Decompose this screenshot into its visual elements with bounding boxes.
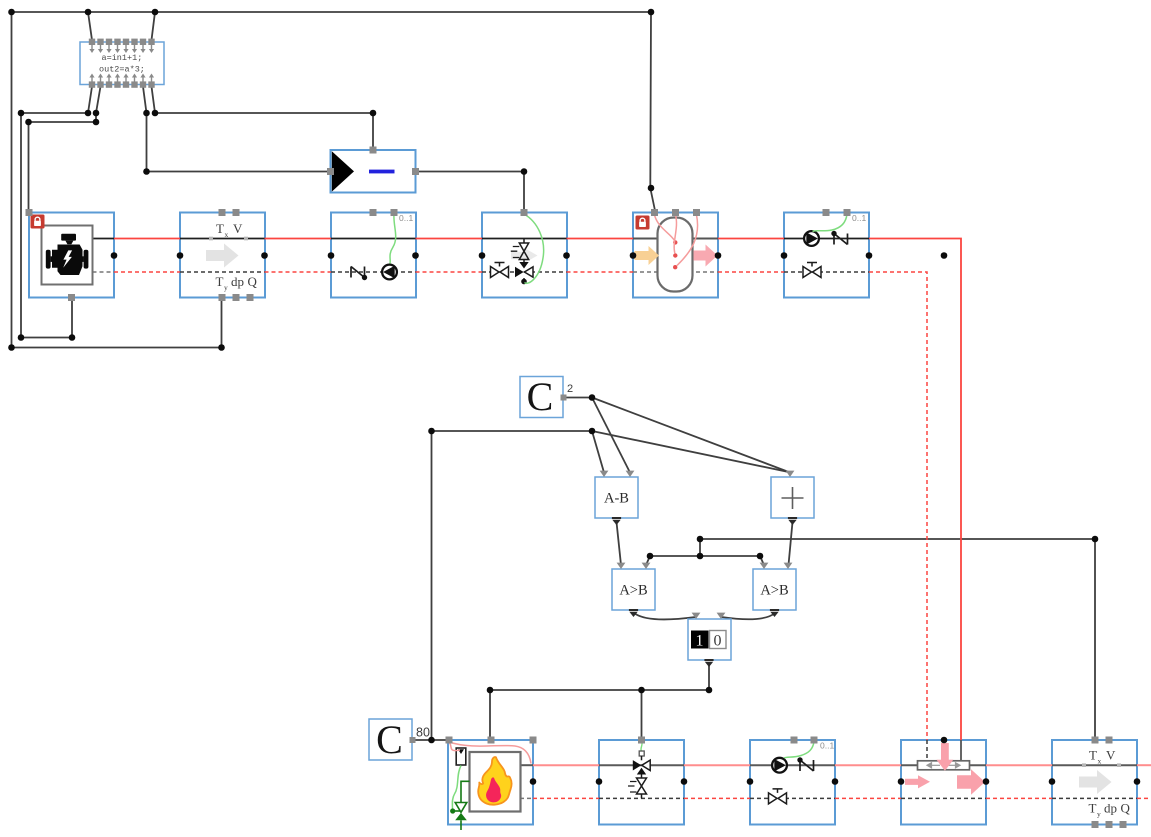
tank top ports <box>651 209 658 216</box>
pipe dashed engine stub <box>93 271 115 273</box>
subtract A-B input arrows <box>600 471 609 477</box>
sensor S1 bottom ports <box>219 294 226 301</box>
gain block triangle <box>332 151 354 191</box>
valve V1 top port <box>521 209 528 216</box>
pipe supply inside mixer <box>960 740 962 761</box>
wire calc bottom pin7 to gain input <box>143 87 330 172</box>
svg-text:V: V <box>233 221 243 236</box>
wire calc bottom pin1 to engine bottom <box>21 87 92 338</box>
constant C2 output port <box>561 395 567 401</box>
pump P2 green control curve <box>813 214 848 232</box>
pipe dashed inside pump P2 <box>784 271 869 273</box>
pipe dashed red sensor S1 to pump P1 <box>265 271 332 273</box>
comparator A>B left input arrows <box>617 563 626 569</box>
sensor S1 gray flow arrow <box>206 244 239 268</box>
valve V1 solenoid triangle <box>519 262 528 269</box>
wire A-B output to comparator A>B left <box>617 522 622 565</box>
constant C80 output port <box>410 737 416 743</box>
pump P1 check valve symbol <box>351 267 367 281</box>
engine icon <box>46 234 89 275</box>
svg-text:0..1: 0..1 <box>852 213 866 223</box>
wire adder output to comparator A>B right <box>789 522 793 565</box>
junction dots top row pipe nodes <box>111 252 948 259</box>
svg-text:dp: dp <box>231 274 244 289</box>
wire top bus horizontal <box>12 11 652 13</box>
wire A>B right output to switch <box>722 613 776 619</box>
wire calc bottom pin2 to engine top-left <box>29 87 101 210</box>
wire bus to A>B right input A <box>760 556 764 565</box>
switch input arrows <box>692 613 701 619</box>
boiler flame icon <box>478 757 511 805</box>
tank outlet arrow pink <box>694 245 718 267</box>
wire C2 to adder + input <box>592 398 790 473</box>
gain block ports <box>370 147 377 154</box>
pipe dashed red pump P1 to valve V1 <box>416 271 483 273</box>
valve V1 gray arrow backdrop <box>511 248 538 263</box>
comparator A>B left output port <box>629 610 638 617</box>
pipe dashed inside tank right <box>689 271 718 273</box>
tank vessel capsule <box>658 218 693 292</box>
pipe dashed return inside mixer <box>926 740 928 762</box>
boiler red sensor curve short <box>449 742 460 751</box>
pipe red pump P3 to mixer <box>835 764 901 766</box>
svg-text:T: T <box>216 221 224 236</box>
wire top bus to tank port <box>650 12 655 211</box>
pipe dashed inside pump P1 <box>331 271 416 273</box>
comparator A>B right output port <box>770 610 779 617</box>
pipe dashed red sensor S2 to edge <box>1137 797 1151 799</box>
pump P3 bowtie valve <box>769 789 787 804</box>
wire constant C2 output stub <box>564 397 593 399</box>
pipe dashed red boiler to valve V2 <box>533 797 599 799</box>
wire A>B left output to switch <box>634 613 696 619</box>
valve V2 green stub <box>641 742 642 752</box>
gain block blue dash <box>369 170 395 174</box>
mixer manifold bar <box>918 761 970 770</box>
block valve V2 frame <box>599 740 684 825</box>
comparator A>B right frame <box>753 569 796 610</box>
sensor S2 tick marks <box>1082 763 1086 767</box>
svg-text:A-B: A-B <box>604 491 629 507</box>
junction dots calc fanout <box>18 110 528 341</box>
valve V2 actuator square <box>639 751 644 756</box>
svg-text:y: y <box>224 283 228 292</box>
svg-text:1: 1 <box>696 633 704 650</box>
valve V1 left bowtie valve <box>491 263 509 278</box>
svg-text:0: 0 <box>714 633 722 650</box>
constant C2 frame <box>520 377 563 418</box>
pipe inside pump P3 <box>750 764 835 766</box>
valve V2 three-way valve <box>633 760 642 770</box>
pipe inside sensor S2 <box>1052 764 1137 766</box>
valve V2 stem <box>641 756 643 760</box>
block temperature-flow sensor S2 frame <box>1052 740 1137 825</box>
sensor S1 label T x V <box>216 221 243 239</box>
wire riser to adder + input 2 <box>592 431 789 472</box>
pipe dashed red mixer to sensor S2 <box>986 797 1052 799</box>
wire riser to subtract A-B input A <box>592 431 604 473</box>
valve V1 green control curve <box>524 214 544 283</box>
tank lock badge <box>636 216 650 230</box>
svg-text:T: T <box>216 274 224 289</box>
block engine/CHP unit frame <box>29 213 114 298</box>
pipe dashed red valve V2 to pump P3 <box>684 797 750 799</box>
pipe dashed inside sensor S1 <box>180 271 265 273</box>
adder plus sign <box>782 487 804 509</box>
pipe red valve V1 to tank <box>567 238 634 240</box>
svg-text:C: C <box>527 374 554 419</box>
wire calc top pin1 link <box>88 12 92 40</box>
boiler flame box <box>470 752 521 812</box>
pipe red sensor S1 to pump P1 <box>265 238 332 240</box>
junction dots bottom row pipe nodes <box>530 778 1141 785</box>
boiler green junction dot <box>450 808 455 813</box>
pump P2 check valve symbol <box>831 231 847 245</box>
pump P1 pump circle <box>382 265 397 280</box>
pipe red supply down to mixer <box>869 239 961 741</box>
svg-text:A>B: A>B <box>760 583 788 599</box>
mixer pink small right arrow <box>905 775 930 788</box>
wire top bus left vertical <box>11 12 13 348</box>
pipe engine outlet stub <box>93 238 115 240</box>
boiler top ports <box>446 737 453 744</box>
engine top-left port <box>26 209 33 216</box>
pipe boiler outlet stub <box>520 764 533 766</box>
constant C80 frame <box>369 719 412 760</box>
tank sensor curve 1 <box>655 215 675 241</box>
svg-text:80: 80 <box>416 726 430 740</box>
pipe dashed red pump P3 to mixer <box>835 797 901 799</box>
pipe dashed red engine to sensor S1 <box>114 271 180 273</box>
wire calc bottom pin8 to gain top <box>152 87 374 150</box>
pipe red boiler to valve V2 <box>533 764 599 766</box>
pipe dashed inside valve V2 <box>599 797 684 799</box>
svg-text:y: y <box>1097 810 1101 819</box>
mixer pink down arrow <box>936 743 953 771</box>
wire bottom-left horizontal to sensor S1 <box>12 347 222 349</box>
tank inlet arrow tan <box>635 246 660 265</box>
pipe red mixer to sensor S2 <box>986 764 1052 766</box>
wire branch down to valve V2 top <box>641 690 643 739</box>
sensor S2 top ports <box>1092 737 1099 744</box>
sensor S1 tick marks <box>209 237 213 241</box>
svg-text:dp: dp <box>1104 801 1117 816</box>
svg-text:A>B: A>B <box>619 583 647 599</box>
boiler red sensor curve long <box>449 742 531 764</box>
block storage tank frame <box>633 213 718 298</box>
pipe inside valve V1 <box>482 238 567 240</box>
valve V1 three-way valve <box>515 267 524 277</box>
sensor S2 label T x V <box>1089 748 1116 766</box>
sensor S2 bottom ports <box>1092 821 1099 828</box>
pipe red tank to pump P2 <box>718 238 784 240</box>
pipe inside tank left <box>633 238 662 240</box>
pipe dashed red tank to pump P2 <box>718 271 784 273</box>
pump P2 pump circle <box>804 231 819 246</box>
svg-text:2: 2 <box>567 383 573 395</box>
valve V1 hourglass valve <box>523 239 525 244</box>
gain block frame <box>331 150 416 193</box>
block mixer/diverter frame <box>901 740 986 825</box>
pipe red valve V2 to pump P3 <box>684 764 750 766</box>
pump P3 check valve symbol <box>797 757 813 771</box>
pipe inside mixer left <box>901 764 918 766</box>
wire bus to A>B left input B <box>646 556 650 565</box>
valve V2 top port <box>638 737 645 744</box>
svg-text:a=in1+1;: a=in1+1; <box>102 53 143 63</box>
subtract A-B output port <box>612 518 621 525</box>
svg-text:out2=a*3;: out2=a*3; <box>99 65 145 75</box>
sensor S2 label T y dp Q <box>1089 801 1131 819</box>
block pump P1 frame <box>331 213 416 298</box>
svg-text:0..1: 0..1 <box>820 741 834 751</box>
pipe inside mixer right <box>970 764 987 766</box>
adder output port <box>788 518 797 525</box>
svg-text:Q: Q <box>1121 801 1131 816</box>
pump P2 bowtie valve <box>803 263 821 278</box>
wire comparator shared input bus <box>650 555 760 557</box>
svg-text:x: x <box>1098 757 1102 766</box>
wire sensor S2 feedback line <box>700 539 1095 739</box>
wire constant C80 output to boiler <box>413 739 449 741</box>
sensor S2 gray flow arrow <box>1079 770 1112 794</box>
sensor S1 label T y dp Q <box>216 274 258 292</box>
svg-text:T: T <box>1089 748 1097 763</box>
adder block frame <box>771 477 814 518</box>
block boiler frame <box>448 740 533 825</box>
mixer top junction dot <box>941 737 948 744</box>
valve V2 lower hourglass valve <box>641 775 643 779</box>
wire sensor S1 bottom port drop <box>221 300 223 348</box>
switch block frame <box>688 619 731 660</box>
svg-text:Q: Q <box>248 274 258 289</box>
pump P3 top ports <box>791 737 798 744</box>
boiler green curve from thermostat <box>452 766 461 810</box>
pipe dashed inside mixer <box>901 797 986 799</box>
pipe dashed red return down to mixer <box>869 272 927 740</box>
adder input arrow <box>786 471 795 477</box>
switch value 1 cell <box>691 631 709 649</box>
calc top pins <box>89 39 155 53</box>
pump P1 green control curve <box>390 214 396 264</box>
tank sensor curve 3 <box>677 215 698 266</box>
pump P3 green control curve <box>784 742 814 759</box>
svg-text:0..1: 0..1 <box>399 213 413 223</box>
svg-text:C: C <box>376 717 403 762</box>
svg-text:x: x <box>225 230 229 239</box>
boiler dark green elbow <box>461 781 470 802</box>
calc equation block frame <box>80 42 164 85</box>
junction dots logic section <box>428 394 1098 743</box>
block temperature-flow sensor S1 frame <box>180 213 265 298</box>
pump P1 top ports <box>370 209 377 216</box>
block 3-way valve V1 frame <box>482 213 567 298</box>
pipe dashed inside tank left <box>633 271 661 273</box>
block pump P2 frame <box>784 213 869 298</box>
pipe dashed inside valve V1 <box>482 271 567 273</box>
svg-text:T: T <box>1089 801 1097 816</box>
pipe inside tank right <box>688 238 718 240</box>
boiler green link to valve <box>453 810 461 812</box>
pipe red engine to sensor S1 <box>114 238 180 240</box>
sensor S1 top ports <box>219 209 226 216</box>
svg-text:V: V <box>1106 748 1116 763</box>
wire switch output to boiler and valve V2 <box>490 664 709 739</box>
engine lock badge <box>31 215 45 229</box>
subtract A-B frame <box>595 477 638 518</box>
engine inner icon box <box>42 226 93 285</box>
pipe dashed red valve V1 to tank <box>567 271 634 273</box>
mixer pink large right arrow <box>957 769 985 795</box>
comparator A>B left frame <box>612 569 655 610</box>
wire calc top pin8 link <box>152 12 156 40</box>
pipe dashed inside sensor S2 <box>1052 797 1137 799</box>
wire gain output to valve V1 top <box>416 172 524 212</box>
valve V1 drain dot <box>521 279 527 285</box>
calc equation text <box>99 53 145 75</box>
wire C2 to subtract A-B input B <box>592 398 630 473</box>
switch output port <box>704 660 713 667</box>
boiler green safety valve <box>455 803 467 813</box>
pipe inside sensor S1 <box>180 238 265 240</box>
junction dots top bus <box>8 9 654 351</box>
pipe inside pump P1 <box>331 238 416 240</box>
tank sensor curve 2 <box>674 215 676 253</box>
boiler thermostat icon <box>456 748 466 765</box>
pipe red pump P1 to valve V1 <box>416 238 483 240</box>
block pump P3 frame <box>750 740 835 825</box>
switch value 0 cell <box>710 631 727 649</box>
calc bottom pins <box>89 74 155 88</box>
engine bottom port <box>68 294 75 301</box>
pump P3 pump circle <box>772 758 787 773</box>
wire C80 riser to logic row <box>432 431 593 740</box>
pipe inside valve V2 <box>599 764 684 766</box>
pipe dashed boiler stub <box>520 797 533 799</box>
comparator A>B right input arrows <box>760 563 769 569</box>
pipe dashed inside pump P3 <box>750 797 835 799</box>
mixer manifold mini arrows <box>927 763 960 768</box>
pump P2 top ports <box>823 209 830 216</box>
pipe red sensor S2 to edge <box>1137 764 1151 766</box>
pipe inside pump P2 <box>784 238 869 240</box>
